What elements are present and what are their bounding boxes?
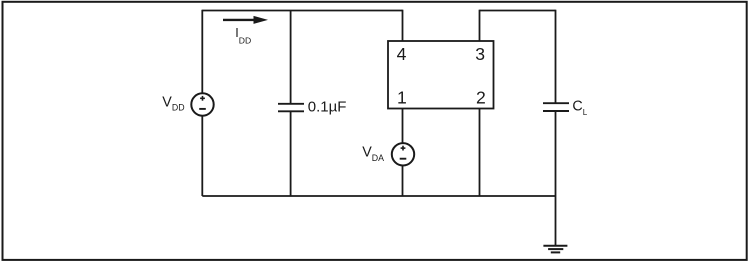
svg-text:2: 2 [476, 88, 486, 108]
wire: pin 1 vertical [402, 109, 404, 144]
voltage source VDA [392, 143, 414, 165]
wire: bypass capacitor upper vertical [290, 11, 292, 104]
wire: VDA lower vertical [402, 166, 404, 197]
wire: CL upper vertical [555, 10, 557, 104]
wire: CL lower vertical down to ground [555, 111, 557, 246]
wire: bottom rail [202, 195, 555, 197]
wire: top rail from pin 3 to CL [480, 10, 556, 12]
svg-text:0.1µF: 0.1µF [308, 99, 347, 116]
wire: pin 4 vertical [402, 10, 404, 41]
wire: top rail from VDD corner to pin-4 drop [202, 10, 402, 12]
voltage source VDD [191, 93, 213, 115]
wire: pin 3 vertical [479, 10, 481, 41]
svg-text:3: 3 [475, 44, 485, 64]
capacitor CL [543, 103, 569, 111]
ground [543, 246, 567, 253]
svg-text:4: 4 [397, 44, 407, 64]
wire: pin 2 vertical [479, 109, 481, 197]
wire: VDD upper vertical [201, 10, 203, 94]
current arrow IDD [223, 16, 268, 24]
IC U1 body [388, 41, 494, 109]
capacitor 0.1uF [278, 104, 304, 112]
svg-text:1: 1 [397, 88, 407, 108]
wire: bypass capacitor lower vertical [290, 111, 292, 196]
wire: VDD lower vertical [201, 116, 203, 196]
